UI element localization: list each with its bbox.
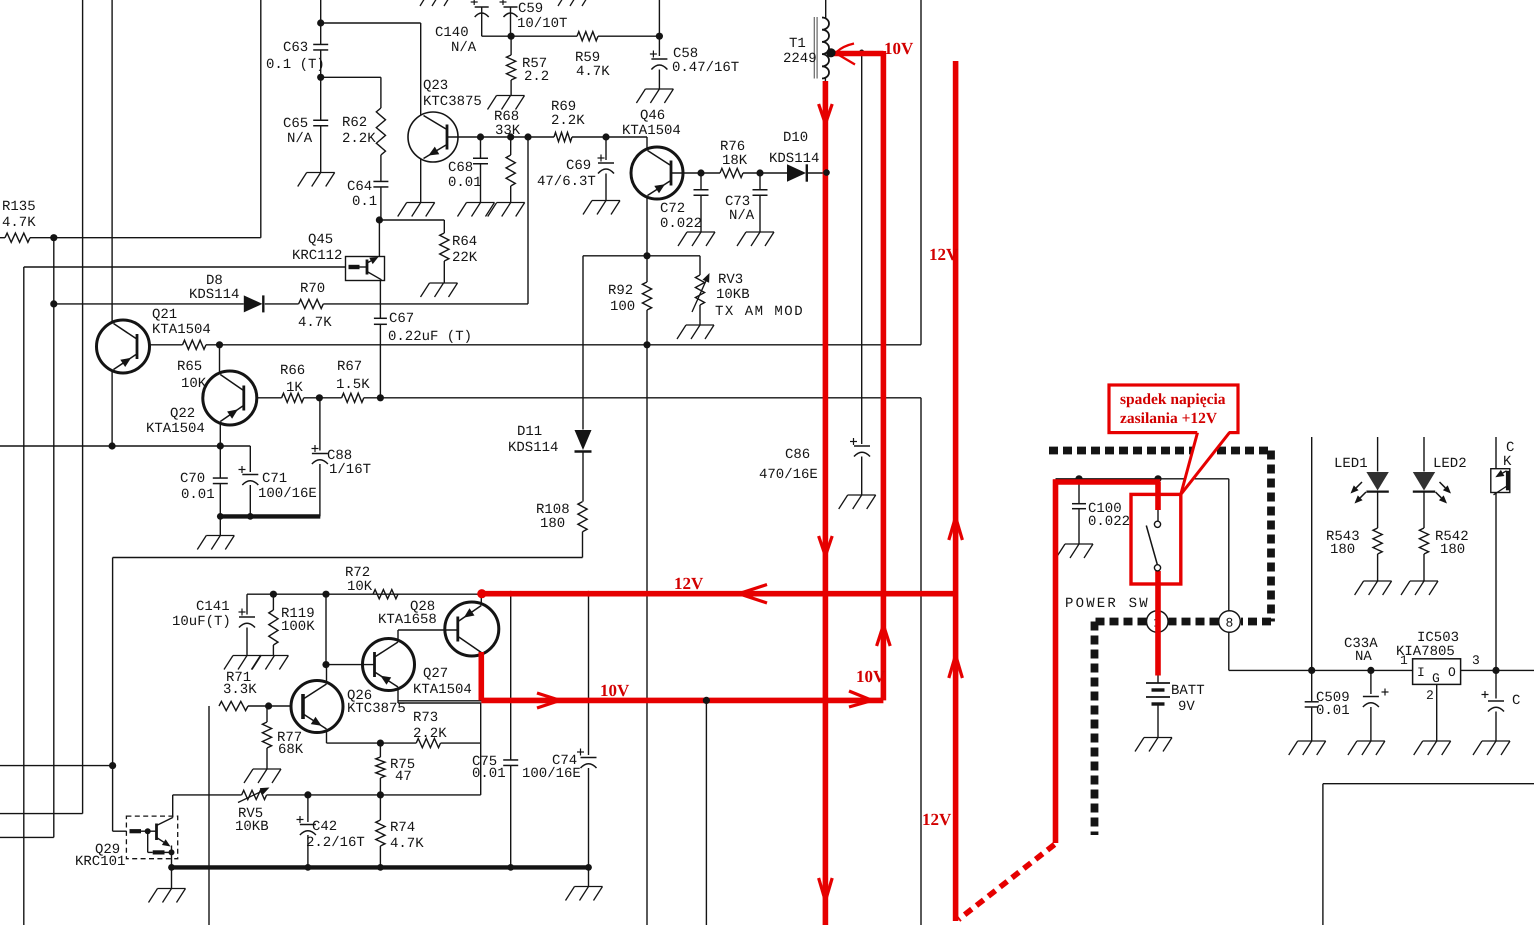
wire opto down to regulator rail <box>1495 493 1497 671</box>
svg-text:C42: C42 <box>312 819 337 835</box>
resistor R135 <box>0 237 5 239</box>
node dot C58 <box>656 33 663 40</box>
svg-text:10V: 10V <box>600 681 630 700</box>
wire vertical x=921 upper <box>920 0 922 345</box>
wire LED1 feed <box>1377 437 1379 472</box>
svg-text:R73: R73 <box>413 710 438 726</box>
node dot R77 top <box>265 702 272 709</box>
node dot Q26 collector / Q27 base <box>322 661 329 668</box>
svg-text:K: K <box>1503 454 1512 470</box>
svg-text:G: G <box>1432 671 1440 686</box>
wire Q26 emitter to R75 node <box>326 730 328 744</box>
wire IC503 gnd pin <box>1436 684 1438 740</box>
wire horizontal y=765.6 to left edge <box>0 765 113 767</box>
wire vertical bus x=24 (left) <box>23 267 25 925</box>
svg-text:R64: R64 <box>452 234 477 250</box>
variable resistor RV5 line y=794.9 <box>173 794 242 796</box>
IC U IC503 KIA7805 <box>1413 659 1461 685</box>
wire R69 node to Q46 collector <box>646 137 648 151</box>
svg-text:12V: 12V <box>674 574 704 593</box>
wire Q22 emitter down <box>219 425 221 447</box>
red switch stub upper <box>1155 482 1161 510</box>
red 12V horizontal rail <box>482 591 956 597</box>
svg-text:47/6.3T: 47/6.3T <box>537 174 596 190</box>
capacitor C33A electrolytic (NA) <box>1370 670 1372 694</box>
ground C33A <box>1357 740 1385 742</box>
svg-text:33K: 33K <box>495 123 521 139</box>
svg-text:Q46: Q46 <box>640 108 665 124</box>
svg-text:N/A: N/A <box>729 208 755 224</box>
wire thick ground bus y=516.4 <box>220 514 320 518</box>
resistor R73 <box>380 742 416 744</box>
wire black under 12V rail <box>482 593 921 595</box>
wire Q29 base lead y=831 <box>113 830 127 832</box>
node dot switch top <box>1154 475 1161 482</box>
svg-text:10uF(T): 10uF(T) <box>172 614 231 630</box>
ground R77 <box>253 768 281 770</box>
wire horizontal bottom-left y=814 <box>0 813 83 815</box>
capacitor C59 electrolytic <box>510 7 512 36</box>
red arrow up x956 lower <box>949 655 956 678</box>
capacitor output electrolytic (cut) <box>1495 670 1497 698</box>
transistor Q22 <box>203 371 257 425</box>
svg-text:4.7K: 4.7K <box>298 315 332 331</box>
red rail x=825 down from T1 <box>823 81 829 925</box>
svg-text:R65: R65 <box>177 359 202 375</box>
svg-text:1K: 1K <box>286 380 303 396</box>
red arrow down x825 top <box>819 104 826 124</box>
ground C74 bus end <box>588 867 590 886</box>
wire Q23 emitter to ground <box>420 159 422 202</box>
red right leg x=1055.5 <box>1053 479 1059 843</box>
node dot C42 top <box>304 791 311 798</box>
svg-text:0.01: 0.01 <box>472 766 506 782</box>
transistor Q26 <box>291 681 343 733</box>
capacitor C72 <box>700 173 702 190</box>
resistor R71 <box>219 701 248 710</box>
svg-text:C64: C64 <box>347 179 372 195</box>
node dot C69 <box>602 133 609 140</box>
capacitor C70 <box>219 446 221 478</box>
wire vertical x=260 top box edge <box>260 0 262 238</box>
node dot C68 <box>477 133 484 140</box>
red arrow down x825 mid <box>819 536 826 556</box>
red dot C75 <box>508 591 514 597</box>
wire Q21 emitter down <box>111 370 113 446</box>
svg-text:LED1: LED1 <box>1334 456 1368 472</box>
svg-text:N/A: N/A <box>287 131 313 147</box>
svg-text:4.7K: 4.7K <box>576 64 610 80</box>
resistor R542 <box>1423 492 1425 528</box>
wire top bus y=36 <box>482 35 577 37</box>
svg-text:C140: C140 <box>435 25 469 41</box>
wire Q21 collector x=112 <box>111 321 113 324</box>
RV5 arrow <box>238 791 261 802</box>
node dot R74 bus <box>377 864 384 871</box>
wire connector-8 to regulator rail <box>1228 632 1230 671</box>
wire R71 left leg x=209 <box>208 706 210 925</box>
red arrow right 10V right <box>849 691 872 700</box>
resistor R69 <box>554 132 572 141</box>
svg-text:TX AM MOD: TX AM MOD <box>715 304 804 320</box>
resistor R75 <box>379 743 381 757</box>
wire vertical x=528 (R69 node down) <box>527 137 529 304</box>
resistor R92 <box>642 282 651 310</box>
svg-text:12V: 12V <box>929 245 959 264</box>
node dot R72 rail / Q26 collector <box>322 591 329 598</box>
node dot C71 bus <box>247 513 254 520</box>
svg-text:R70: R70 <box>300 281 325 297</box>
wire Q22 collector <box>219 345 221 372</box>
wire vertical x=83 <box>82 0 84 814</box>
svg-text:zasilania +12V: zasilania +12V <box>1120 410 1218 427</box>
red supply line from T1 tap (10V) <box>831 51 883 57</box>
ground R64 <box>430 282 458 284</box>
node dot C73 <box>756 169 763 176</box>
capacitor C69 electrolytic <box>605 137 607 160</box>
node dot x54 y238 <box>50 234 57 241</box>
svg-text:3.3K: 3.3K <box>223 682 257 698</box>
resistor R76 <box>720 168 743 177</box>
node dot Q21 emitter y446 <box>109 442 116 449</box>
svg-text:2.2: 2.2 <box>524 69 549 85</box>
wire LED2 feed <box>1423 437 1425 472</box>
ground IC503 <box>1423 740 1451 742</box>
node dot C42 bus <box>305 864 312 871</box>
svg-text:C67: C67 <box>389 311 414 327</box>
svg-text:100: 100 <box>610 299 635 315</box>
transistor Q46 <box>631 147 683 199</box>
transistor Q27 <box>363 639 415 691</box>
node dot R64 line <box>376 216 383 223</box>
ground C73 <box>746 231 774 233</box>
ground C86 <box>848 494 876 496</box>
svg-text:12V: 12V <box>922 810 952 829</box>
svg-text:C72: C72 <box>660 201 685 217</box>
transistor Q45 digital box <box>346 257 385 281</box>
svg-text:4.7K: 4.7K <box>390 836 424 852</box>
svg-text:R135: R135 <box>2 199 36 215</box>
svg-text:KTC3875: KTC3875 <box>423 94 482 110</box>
svg-text:O: O <box>1448 665 1456 680</box>
resistor R57 <box>510 36 512 55</box>
node dot R66/R67/C88 <box>316 394 323 401</box>
wire vertical x=112 top (Q21 collector feed) <box>111 0 113 321</box>
svg-text:T1: T1 <box>789 36 806 52</box>
LED2 <box>1413 472 1435 491</box>
svg-text:180: 180 <box>1330 542 1355 558</box>
wire x=862 down to C86 <box>861 54 863 445</box>
ground battery <box>1144 737 1172 739</box>
resistor R119 <box>272 594 274 610</box>
ground Q29 <box>171 867 173 888</box>
wire horizontal bottom-left y=837 <box>0 836 54 838</box>
red rail x=956 <box>953 61 959 921</box>
wire T1 top lead <box>825 0 827 19</box>
wire black under tap <box>831 53 883 55</box>
transistor Q29 digital dashed box <box>126 816 177 859</box>
node dot R92 bottom <box>643 341 650 348</box>
red switch highlight box <box>1131 494 1181 584</box>
resistor R62 <box>380 77 382 108</box>
wire thick dashed path left down <box>1091 622 1099 836</box>
resistor R64 <box>443 220 445 233</box>
resistor R59 <box>577 32 598 41</box>
svg-text:10V: 10V <box>884 39 914 58</box>
svg-text:100/16E: 100/16E <box>258 486 317 502</box>
ground partial top x=440 <box>420 0 428 6</box>
svg-text:180: 180 <box>540 516 565 532</box>
ground C100 <box>1065 543 1093 545</box>
svg-text:0.1: 0.1 <box>352 194 377 210</box>
svg-text:KTC3875: KTC3875 <box>347 701 406 717</box>
svg-text:22K: 22K <box>452 250 478 266</box>
node dot R74 top <box>377 791 384 798</box>
wire Q23 base line y=137 <box>447 136 554 138</box>
node dot x528 <box>524 133 531 140</box>
svg-text:2.2K: 2.2K <box>551 113 585 129</box>
red arrow down x825 bottom <box>819 878 826 901</box>
diode D11 <box>575 430 592 450</box>
wire Q28 emitter to 12V rail <box>480 594 482 602</box>
capacitor C509 <box>1311 670 1313 701</box>
wire x=647 down to bottom <box>646 345 648 925</box>
wire Q27 collector to Q28 base <box>397 630 399 642</box>
wire thick dashed path top run <box>1049 447 1271 455</box>
node dot C67 bottom <box>377 394 384 401</box>
red feed to switch horizontal y=482 <box>1053 479 1160 485</box>
red callout box spadek napiecia <box>1109 385 1238 433</box>
ground R542 <box>1410 580 1438 582</box>
connector pin 8 circle <box>1219 611 1241 633</box>
node dot R119 top <box>270 591 277 598</box>
wire connector-8 feed x=1228.8 <box>1228 479 1230 612</box>
wire horizontal y=267 to Q45 <box>24 266 346 268</box>
red switch stub lower <box>1155 571 1161 676</box>
wire R135 node horizontal y=238 <box>30 237 261 239</box>
svg-text:4.7K: 4.7K <box>2 215 36 231</box>
wire C58 feed from top <box>658 0 660 36</box>
transistor Q28 <box>445 602 499 656</box>
wire thick dashed path right down <box>1267 451 1275 622</box>
svg-text:N/A: N/A <box>451 40 477 56</box>
ground C141 <box>233 655 261 657</box>
svg-text:470/16E: 470/16E <box>759 467 818 483</box>
wire R77 base link <box>269 705 291 707</box>
capacitor C63 <box>320 23 322 45</box>
node dot Q22 emitter y446 <box>217 442 224 449</box>
wire Q21/R65 line y=344.8 to corner x=921 <box>150 344 183 346</box>
svg-text:C68: C68 <box>448 160 473 176</box>
node dot x862 tap <box>859 50 864 55</box>
node dot R65/Q22 <box>216 341 223 348</box>
svg-text:BATT: BATT <box>1171 683 1205 699</box>
node dot C74 bus <box>585 864 592 871</box>
capacitor C86 electrolytic <box>854 445 870 447</box>
wire emitter ground line y=446 <box>0 445 250 447</box>
svg-text:KDS114: KDS114 <box>189 287 239 303</box>
capacitor C68 <box>480 137 482 158</box>
ground C69 <box>592 200 620 202</box>
svg-text:C70: C70 <box>180 471 205 487</box>
red arrow left 12V <box>739 585 767 594</box>
ground R543 <box>1364 580 1392 582</box>
node dot C70 bus <box>217 513 224 520</box>
capacitor C140-side electrolytic left <box>481 7 483 36</box>
node dot R68 <box>507 133 514 140</box>
svg-text:Q45: Q45 <box>308 232 333 248</box>
svg-text:9V: 9V <box>1178 699 1195 715</box>
connector pin 1 circle <box>1147 611 1169 633</box>
red tap curved arrow <box>837 44 854 52</box>
svg-text:100/16E: 100/16E <box>522 766 581 782</box>
red Q28 collector drop <box>478 652 484 700</box>
battery BATT 9V <box>1146 682 1170 684</box>
wire box line y=557.5 <box>113 557 583 559</box>
svg-text:KTA1504: KTA1504 <box>413 682 472 698</box>
switch POWER SW contacts <box>1154 521 1160 527</box>
ground R119 <box>260 655 288 657</box>
capacitor C58 electrolytic <box>658 36 660 56</box>
wire C100 rail y=478.8 <box>1056 478 1229 480</box>
svg-text:R66: R66 <box>280 363 305 379</box>
variable resistor RV3 <box>699 256 701 275</box>
svg-text:C59: C59 <box>518 1 543 17</box>
svg-text:R62: R62 <box>342 115 367 131</box>
node dot C63 top <box>317 19 324 26</box>
ground RV3 <box>686 324 714 326</box>
resistor R66 <box>282 393 304 402</box>
svg-text:10V: 10V <box>856 667 886 686</box>
ground C68 <box>467 202 495 204</box>
wire bottom-right box corner <box>1323 783 1534 785</box>
wire Q46 base to R76/D10 <box>671 172 720 174</box>
svg-text:0.01: 0.01 <box>448 175 482 191</box>
svg-text:NA: NA <box>1355 649 1372 665</box>
node dot C509 <box>1308 667 1315 674</box>
svg-text:KRC112: KRC112 <box>292 248 342 264</box>
wire thick dashed path between connectors <box>1169 618 1219 626</box>
node dot D10 cathode junction <box>823 169 830 176</box>
wire C141/R72 rail y=594.2 <box>247 593 482 595</box>
svg-text:POWER SW: POWER SW <box>1065 596 1150 612</box>
resistor R543 <box>1377 492 1379 528</box>
ground partial top x=578 <box>558 0 566 6</box>
wire thick dashed path left of connector 1 <box>1095 618 1147 626</box>
svg-text:Q21: Q21 <box>152 307 177 323</box>
diode D8 <box>244 295 263 312</box>
ground C509 <box>1298 740 1326 742</box>
svg-text:I: I <box>1417 665 1425 680</box>
node dot T1 tap (black over red) <box>826 48 835 57</box>
wire Q27 emitter to 10V node <box>397 688 399 704</box>
svg-text:RV3: RV3 <box>718 272 743 288</box>
svg-text:KTA1658: KTA1658 <box>378 612 437 628</box>
svg-text:8: 8 <box>1226 616 1234 631</box>
svg-text:3: 3 <box>1472 653 1480 668</box>
svg-text:0.47/16T: 0.47/16T <box>672 60 739 76</box>
wire C63 node to R62 <box>321 76 381 78</box>
svg-text:D11: D11 <box>517 424 542 440</box>
svg-text:R67: R67 <box>337 359 362 375</box>
svg-text:LED2: LED2 <box>1433 456 1467 472</box>
transistor Q21 <box>97 320 150 373</box>
svg-text:C65: C65 <box>283 116 308 132</box>
red junction dot Q28 emitter <box>477 589 486 598</box>
red dot C74 <box>586 591 592 597</box>
wire R92/RV3 top line y=256 <box>583 255 700 257</box>
svg-text:10KB: 10KB <box>716 287 750 303</box>
wire thick dashed path to connector 8 <box>1241 618 1271 626</box>
svg-text:KDS114: KDS114 <box>769 151 819 167</box>
svg-text:R74: R74 <box>390 820 415 836</box>
wire box vertical x=112.6 <box>112 558 114 832</box>
svg-text:C71: C71 <box>262 471 287 487</box>
svg-text:KRC101: KRC101 <box>75 854 125 870</box>
svg-text:2.2K: 2.2K <box>342 131 376 147</box>
svg-text:2.2K: 2.2K <box>413 726 447 742</box>
red arrow up x884 <box>877 625 884 646</box>
svg-text:0.1 (T): 0.1 (T) <box>266 57 325 73</box>
red 10V horizontal rail <box>481 698 883 704</box>
wire C63 top to Q23 collector <box>321 22 421 24</box>
wire Q29 collector up <box>172 795 174 818</box>
svg-text:C141: C141 <box>196 599 230 615</box>
svg-text:Q23: Q23 <box>423 78 448 94</box>
resistor R70 <box>299 299 324 308</box>
node dot R73/R75 <box>377 740 384 747</box>
svg-text:2249: 2249 <box>783 51 817 67</box>
resistor R67 <box>342 393 364 402</box>
wire switch black x=1158 <box>1157 479 1159 521</box>
svg-text:10K: 10K <box>347 579 373 595</box>
svg-text:Q27: Q27 <box>423 666 448 682</box>
ground C58 <box>645 88 673 90</box>
svg-text:10KB: 10KB <box>235 819 269 835</box>
transformer T1 winding <box>822 18 829 79</box>
wire T1 bottom lead <box>824 78 826 925</box>
svg-text:KTA1504: KTA1504 <box>146 421 205 437</box>
wire Q22 base line y=397.8 to corner x=921 <box>257 397 282 399</box>
capacitor C74 electrolytic <box>588 594 590 755</box>
svg-text:100K: 100K <box>281 619 315 635</box>
ground C70 bus <box>219 516 221 535</box>
capacitor C141 electrolytic <box>246 594 248 614</box>
node dot Q29 bus <box>168 864 175 871</box>
node dot C75 bus <box>507 864 514 871</box>
svg-text:KTA1504: KTA1504 <box>622 123 681 139</box>
svg-text:D10: D10 <box>783 130 808 146</box>
ground R57 <box>497 95 525 97</box>
resistor R68 <box>510 137 512 155</box>
wire vertical x=921 lower to bottom <box>920 398 922 925</box>
wire C509 feed x=1312 <box>1311 437 1313 670</box>
ground output cap <box>1482 740 1510 742</box>
svg-text:0.01: 0.01 <box>181 487 215 503</box>
node dot C72 <box>697 169 704 176</box>
diode D10 <box>787 164 806 181</box>
node dot regulator output <box>1492 667 1499 674</box>
LED1 <box>1366 472 1388 491</box>
svg-text:C: C <box>1512 693 1520 709</box>
svg-text:C63: C63 <box>283 40 308 56</box>
node dot C63/C65 junction <box>317 74 324 81</box>
svg-text:R92: R92 <box>608 283 633 299</box>
svg-text:2: 2 <box>1426 688 1434 703</box>
svg-text:1/16T: 1/16T <box>329 462 371 478</box>
svg-text:KDS114: KDS114 <box>508 440 558 456</box>
svg-text:2.2/16T: 2.2/16T <box>306 835 365 851</box>
